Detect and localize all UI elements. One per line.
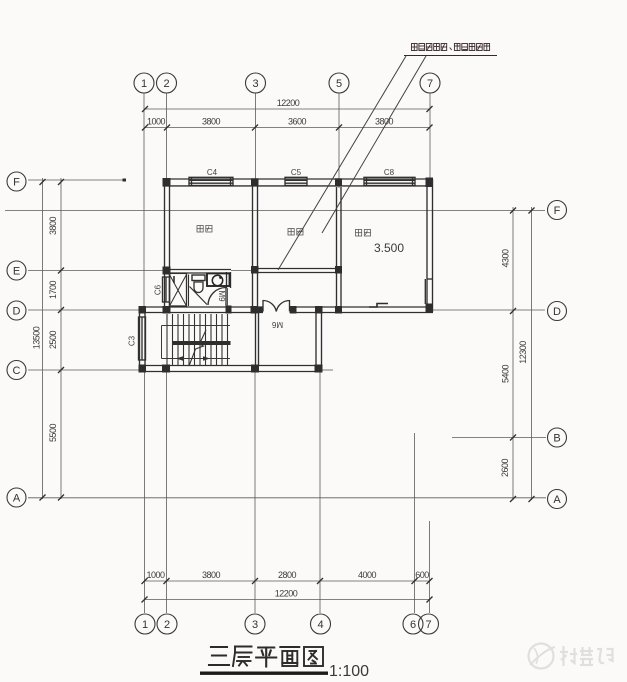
- wire left exterior wall upper: [164, 181, 166, 313]
- axis bubble D right: [548, 302, 567, 321]
- toilet tank: [192, 275, 205, 281]
- node column block bathroom right bottom: [226, 306, 232, 314]
- wire interior wall axis5 study-bedroom: [336, 187, 338, 313]
- CIRCLES: [7, 73, 567, 634]
- axis 5 upper extension: [338, 93, 340, 188]
- svg-text:2: 2: [164, 619, 170, 631]
- FIXTURES: [170, 273, 230, 306]
- axis bubble 2 bottom: [157, 614, 177, 634]
- washbasin counter: [207, 273, 230, 286]
- shower head dot: [173, 276, 175, 283]
- svg-text:6: 6: [410, 619, 416, 631]
- svg-text:4000: 4000: [358, 570, 377, 580]
- ticks left dim outer: [40, 179, 46, 185]
- node column block D left wall: [163, 306, 171, 314]
- window C4: [189, 177, 233, 185]
- ticks top dim segments: [142, 125, 148, 131]
- svg-text:1: 1: [141, 78, 147, 90]
- svg-text:3600: 3600: [288, 117, 307, 127]
- svg-text:C6: C6: [154, 284, 163, 295]
- title glyph san (three): [209, 647, 229, 665]
- leader line long: [278, 56, 406, 270]
- svg-text:A: A: [13, 493, 21, 505]
- svg-text:D: D: [553, 306, 561, 318]
- door M6 double swing: [263, 300, 276, 311]
- watermark text ji: [597, 649, 613, 663]
- axis bubble E left: [7, 261, 26, 280]
- svg-text:3: 3: [252, 78, 258, 90]
- svg-text:3800: 3800: [202, 117, 221, 127]
- axis bubble 3 top: [246, 73, 266, 93]
- axis E line middle: [231, 270, 252, 272]
- stair handrail bar: [173, 341, 231, 345]
- axis bubble 7 top: [420, 73, 440, 93]
- svg-text:12200: 12200: [277, 98, 300, 108]
- svg-text:3.500: 3.500: [374, 241, 404, 255]
- node column block stair right top: [315, 306, 323, 314]
- axis bubble 7 bottom: [419, 614, 439, 634]
- svg-text:C5: C5: [291, 168, 302, 177]
- svg-text:D: D: [13, 306, 21, 318]
- axis D line left: [28, 309, 139, 311]
- svg-text:2600: 2600: [500, 458, 510, 477]
- axis bubble 3 bottom: [245, 614, 265, 634]
- watermark text shu: [580, 647, 593, 665]
- axis 3 upper extension: [255, 93, 257, 181]
- axis B line right: [452, 437, 546, 439]
- svg-text:2500: 2500: [48, 330, 58, 349]
- svg-text:1000: 1000: [147, 117, 166, 127]
- watermark logo: [529, 644, 554, 669]
- shower screen diagonal: [190, 287, 208, 305]
- left dim line outer 13500: [42, 178, 44, 499]
- axis 1 lower extension: [144, 372, 146, 613]
- TITLE: [200, 647, 369, 681]
- wire bathroom right wall: [226, 272, 228, 288]
- window C5: [285, 177, 307, 185]
- washbasin bowl circle: [212, 275, 222, 285]
- svg-text:1000: 1000: [146, 570, 165, 580]
- threshold step mark bedroom2: [369, 304, 388, 308]
- stair arrow right: [203, 356, 210, 360]
- wire study bottom wall axis E: [252, 268, 341, 270]
- node column block stair bottom-left: [139, 365, 147, 373]
- stair flight upper rail: [162, 325, 231, 327]
- svg-text:1: 1: [142, 619, 148, 631]
- svg-text:C: C: [13, 365, 21, 377]
- annotation underline: [404, 55, 497, 57]
- axis F left line: [28, 179, 124, 181]
- title glyph ceng (floor): [233, 647, 252, 667]
- axis bubble 5 top: [329, 73, 349, 93]
- axis 6 lower extension: [414, 433, 416, 613]
- wire stair right wall axis4: [315, 307, 317, 372]
- svg-text:3800: 3800: [202, 570, 221, 580]
- title glyph ping (flat): [256, 648, 276, 667]
- axis 7 lower extension: [429, 521, 431, 613]
- axis F right long line: [5, 210, 545, 212]
- node column block E axis5: [335, 266, 342, 274]
- axis bubble A right: [548, 490, 567, 509]
- ticks bottom dim segments: [142, 578, 148, 584]
- axis 7 upper extension: [429, 93, 431, 179]
- room label study (drawn glyphs): [288, 229, 303, 236]
- svg-text:4: 4: [317, 619, 323, 631]
- svg-text:F: F: [13, 177, 20, 189]
- watermark text cun: [560, 646, 577, 666]
- shower box with cross: [170, 273, 187, 306]
- right dim line outer 12300: [531, 207, 533, 500]
- node column block C axis4: [315, 365, 323, 373]
- svg-text:7: 7: [425, 619, 431, 631]
- axis E line left: [28, 270, 163, 272]
- svg-text:5400: 5400: [501, 364, 511, 383]
- axis D line right: [433, 309, 545, 311]
- right dim line inner: [512, 207, 514, 500]
- stair treads: [167, 314, 228, 366]
- node column block D axis5: [335, 306, 342, 314]
- svg-text:5: 5: [336, 78, 342, 90]
- node column block E left wall: [163, 267, 171, 275]
- axis 1 upper extension: [143, 93, 145, 310]
- svg-text:3: 3: [252, 619, 258, 631]
- svg-text:2800: 2800: [278, 570, 297, 580]
- svg-text:3800: 3800: [375, 117, 394, 127]
- axis C line right stub: [322, 369, 333, 371]
- node column block right wall bottom: [426, 304, 434, 313]
- axis 4 lower extension: [319, 372, 321, 613]
- axis bubble 2 top: [157, 73, 177, 93]
- node column block top-right corner: [426, 178, 434, 188]
- svg-text:7: 7: [427, 78, 433, 90]
- axis bubble D left: [7, 301, 26, 320]
- svg-text:3800: 3800: [48, 216, 58, 235]
- node F-left line end dot: [123, 179, 127, 182]
- node column block D door right jamb: [290, 306, 297, 314]
- annotation note text (drawn glyph clusters): [412, 44, 490, 51]
- wire stair bottom wall axis C: [139, 365, 322, 367]
- axis bubble 4 bottom: [311, 614, 331, 634]
- svg-text:2: 2: [163, 78, 169, 90]
- window C3 left stair wall: [139, 317, 146, 360]
- DIMS: [43, 109, 532, 600]
- stair flight left edge: [161, 326, 163, 359]
- left dim line inner: [60, 178, 62, 499]
- title glyph tu (plan): [304, 647, 323, 666]
- axis 3 lower extension: [254, 372, 256, 613]
- axis A long line: [28, 497, 546, 499]
- window C8: [364, 177, 415, 185]
- node column block C axis3: [251, 365, 259, 373]
- ticks left dim inner: [58, 179, 64, 185]
- svg-text:M6: M6: [271, 320, 283, 329]
- svg-text:F: F: [554, 205, 561, 217]
- axis bubble A left: [7, 488, 26, 507]
- leader line short: [322, 56, 426, 233]
- bottom dim line segments: [145, 580, 430, 582]
- node column block C axis2: [162, 365, 170, 373]
- axis bubble C left: [7, 361, 26, 380]
- svg-text:M9: M9: [217, 290, 226, 302]
- axis 2 lower extension: [166, 372, 168, 613]
- axis 2 upper extension: [166, 93, 168, 181]
- svg-text:C4: C4: [207, 168, 218, 177]
- axis C line left: [28, 369, 139, 371]
- wire top exterior wall double line: [163, 178, 433, 180]
- stair arrow left: [176, 356, 183, 360]
- ticks right dim outer: [529, 208, 535, 214]
- axis bubble 1 bottom: [135, 614, 155, 634]
- window C6 left wall: [163, 277, 170, 302]
- svg-text:13500: 13500: [32, 326, 42, 349]
- top dim line segments: [145, 127, 430, 129]
- wire stair hall inner wall axis3 lower: [255, 313, 257, 366]
- wire bathroom top wall axis E: [163, 269, 231, 271]
- svg-text:C3: C3: [128, 335, 137, 346]
- WALLS: [139, 179, 433, 372]
- svg-text:12200: 12200: [275, 589, 298, 599]
- axis bubble 1 top: [134, 73, 154, 93]
- stair flight lower rail: [162, 358, 231, 360]
- svg-text:E: E: [13, 266, 20, 278]
- node column block D axis3 doorjamb: [251, 306, 258, 314]
- node column block top axis5: [335, 178, 342, 186]
- svg-text:5500: 5500: [48, 423, 58, 442]
- ticks right dim inner: [510, 208, 516, 214]
- top dim line overall 12200: [145, 108, 430, 110]
- svg-text:4300: 4300: [501, 249, 511, 268]
- title underline: [200, 672, 328, 675]
- node column block top-left corner: [163, 178, 171, 187]
- toilet bowl: [194, 282, 203, 293]
- axis bubble F right: [548, 201, 567, 220]
- svg-text:B: B: [553, 433, 560, 445]
- ticks top dim overall: [142, 106, 148, 112]
- svg-text:C8: C8: [384, 168, 395, 177]
- bottom dim line overall 12200: [145, 599, 430, 601]
- svg-text:600: 600: [415, 570, 429, 580]
- axis bubble F left: [7, 172, 26, 191]
- stair direction break line: [189, 330, 206, 366]
- TEXTS: [128, 168, 405, 346]
- wire corridor wall axis D with door openings: [139, 306, 263, 308]
- wire stair left exterior wall: [139, 307, 141, 372]
- wire right exterior wall: [426, 179, 428, 312]
- node column block E axis3: [251, 266, 259, 274]
- axis bubble 6 bottom: [403, 614, 423, 634]
- title glyph mian (surface): [280, 647, 299, 666]
- partition shower-toilet: [188, 275, 190, 307]
- svg-text:A: A: [553, 494, 561, 506]
- room label bedroom 2 (drawn glyphs): [356, 230, 371, 237]
- wire interior wall axis3 bedroom-study: [252, 181, 254, 313]
- axis bubble B right: [548, 428, 567, 447]
- node column block top axis3: [251, 178, 259, 186]
- ticks bottom dim overall: [142, 597, 148, 603]
- door M9 bathroom swing: [208, 288, 226, 306]
- svg-text:1700: 1700: [48, 280, 58, 299]
- node column block stair top-left: [139, 306, 147, 314]
- room label bedroom 1 (drawn glyphs): [197, 226, 212, 233]
- svg-text:12300: 12300: [518, 341, 528, 364]
- svg-text:1:100: 1:100: [329, 663, 369, 680]
